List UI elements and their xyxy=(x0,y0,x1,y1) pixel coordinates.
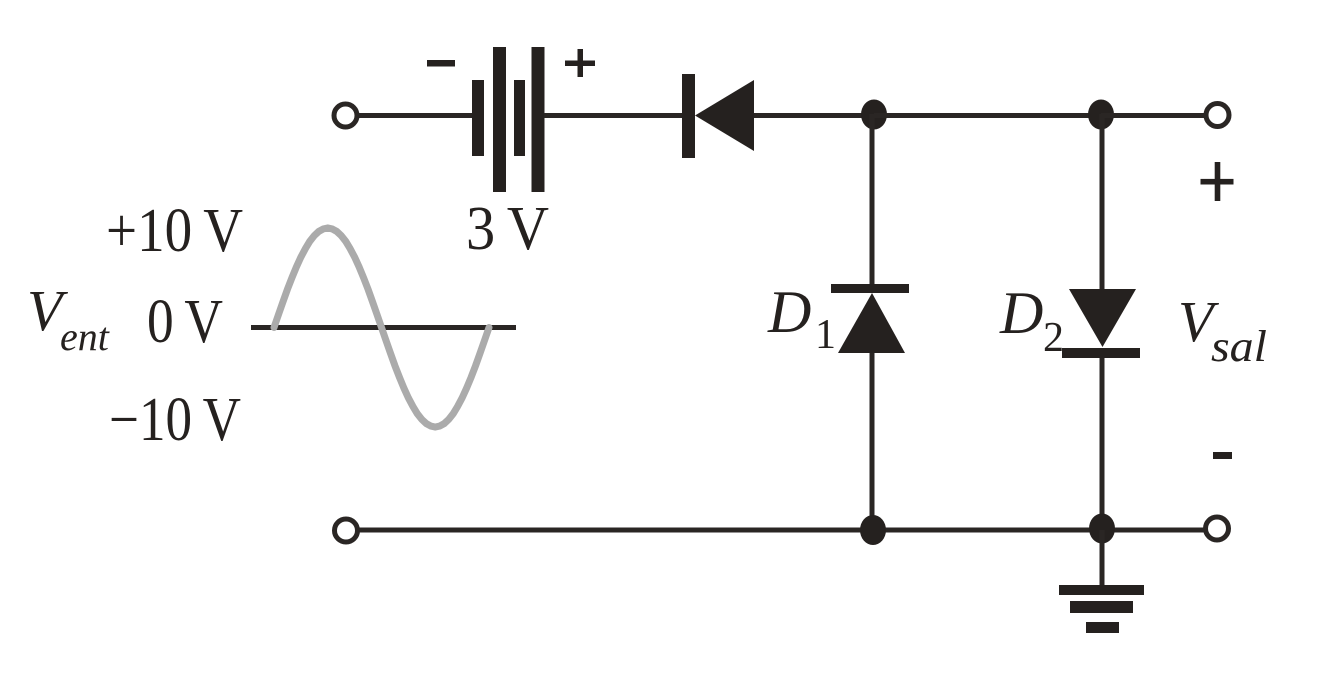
output plus sign xyxy=(1201,179,1234,185)
diode D1 triangle (pointing up) xyxy=(838,293,905,353)
wire: node A down to diode D1 xyxy=(870,114,875,288)
wire: input terminal to battery xyxy=(357,113,473,118)
diode D1 cathode bar xyxy=(831,284,909,293)
node C junction dot (bottom of D1) xyxy=(860,515,886,545)
svg-text:1: 1 xyxy=(815,312,836,358)
ground symbol bar 1 xyxy=(1059,585,1144,595)
svg-text:−10 V: −10 V xyxy=(109,386,241,454)
wire: diode D2 to bottom rail xyxy=(1100,358,1105,530)
svg-text:2: 2 xyxy=(1043,315,1064,361)
ground symbol bar 3 xyxy=(1086,622,1119,633)
wire: ground stub xyxy=(1100,530,1105,586)
wire: node B down to diode D2 xyxy=(1100,114,1105,292)
svg-text:+10 V: +10 V xyxy=(106,197,243,265)
input source waveform: sine curve xyxy=(274,228,489,427)
wire: node B to output terminal xyxy=(1101,113,1205,118)
battery B1 plate (short, negative) xyxy=(472,80,484,156)
svg-text:0 V: 0 V xyxy=(147,288,223,356)
wire: node A to node B xyxy=(874,113,1101,118)
ground symbol bar 2 xyxy=(1070,601,1133,613)
wire: battery to series diode xyxy=(544,113,683,118)
svg-text:D: D xyxy=(999,280,1043,346)
svg-text:D: D xyxy=(767,279,811,345)
battery B1 minus sign xyxy=(427,60,455,67)
output minus sign xyxy=(1213,452,1232,459)
diode D2 triangle (pointing down) xyxy=(1069,289,1136,347)
battery B1 plate (tall, positive) xyxy=(532,47,545,192)
bottom terminal right xyxy=(1206,517,1229,540)
bottom rail wire xyxy=(358,528,1205,533)
node D junction dot (bottom of D2) xyxy=(1089,514,1115,544)
input source waveform: 0 V axis line xyxy=(251,325,516,330)
diode D2 cathode bar xyxy=(1062,348,1140,358)
svg-text:sal: sal xyxy=(1211,322,1267,371)
battery B1 plate (short) xyxy=(514,80,525,156)
series diode triangle (pointing left) xyxy=(695,80,754,151)
wire: series diode to node A xyxy=(754,113,874,118)
battery B1 plus sign xyxy=(565,61,595,67)
output terminal top right xyxy=(1206,104,1229,127)
series diode cathode bar xyxy=(682,74,695,158)
node A junction dot (top of D1) xyxy=(861,100,887,130)
battery B1 plate (tall) xyxy=(493,47,506,192)
input terminal top left xyxy=(334,104,357,127)
bottom terminal left xyxy=(335,519,358,542)
svg-text:3 V: 3 V xyxy=(466,195,549,263)
node B junction dot (top of D2) xyxy=(1088,100,1114,130)
wire: diode D1 to bottom rail xyxy=(870,353,875,530)
svg-text:ent: ent xyxy=(60,314,110,359)
